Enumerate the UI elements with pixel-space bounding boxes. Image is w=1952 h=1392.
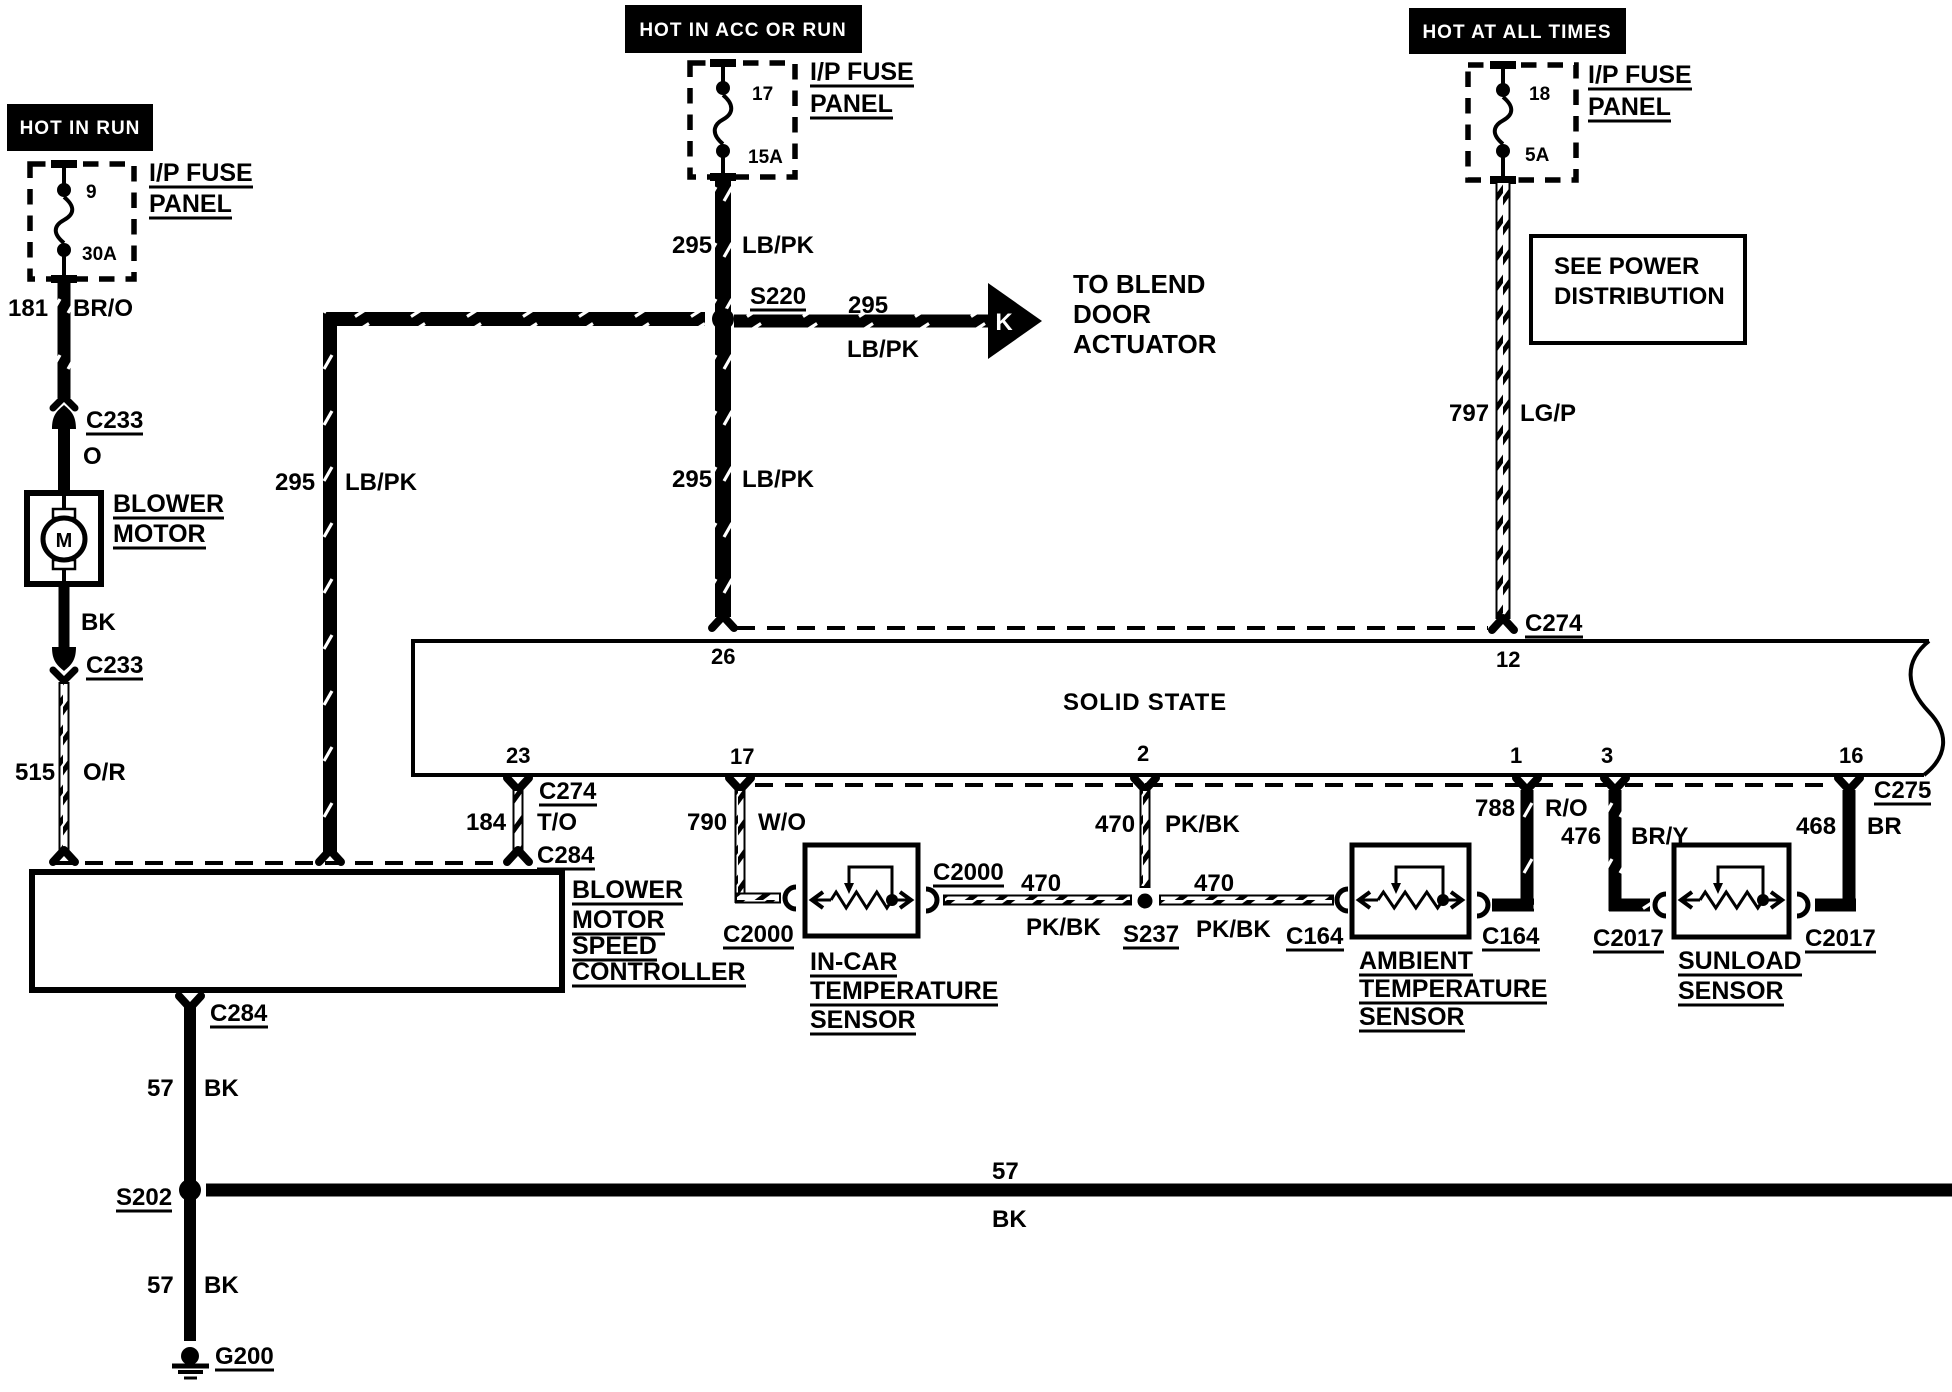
pin 3 — [1601, 743, 1613, 768]
svg-text:LG/P: LG/P — [1520, 400, 1576, 427]
svg-text:I/P FUSE: I/P FUSE — [810, 58, 914, 86]
svg-text:295: 295 — [672, 466, 712, 493]
svg-text:LB/PK: LB/PK — [742, 232, 815, 259]
fuse panel box (right, fuse 18) — [1468, 61, 1576, 184]
svg-text:26: 26 — [711, 644, 735, 669]
svg-text:HOT IN ACC OR RUN: HOT IN ACC OR RUN — [639, 20, 846, 41]
svg-text:184: 184 — [466, 809, 507, 836]
svg-text:9: 9 — [86, 182, 97, 203]
fuse panel box (middle, fuse 17) — [690, 59, 795, 181]
splice S202 — [116, 1179, 201, 1211]
wire O — [58, 426, 102, 496]
svg-text:HOT AT ALL TIMES: HOT AT ALL TIMES — [1422, 22, 1611, 43]
connector C164 (right label) — [1477, 894, 1540, 950]
svg-text:1: 1 — [1510, 743, 1522, 768]
svg-text:12: 12 — [1496, 647, 1520, 672]
svg-text:LB/PK: LB/PK — [742, 466, 815, 493]
svg-text:470: 470 — [1194, 870, 1234, 897]
svg-text:2: 2 — [1137, 741, 1149, 766]
svg-text:C233: C233 — [86, 407, 143, 434]
connector C2017 (right label) — [1797, 894, 1876, 952]
svg-text:PANEL: PANEL — [810, 90, 893, 118]
label HOT IN RUN — [7, 104, 153, 151]
svg-text:DOOR: DOOR — [1073, 299, 1151, 329]
svg-text:R/O: R/O — [1545, 795, 1588, 822]
svg-text:SEE POWER: SEE POWER — [1554, 253, 1699, 280]
splice S220 — [712, 283, 806, 330]
svg-text:57: 57 — [992, 1158, 1019, 1185]
wire 295 LB/PK (S220 down to solid state pin 26) — [672, 326, 815, 628]
svg-text:S220: S220 — [750, 283, 806, 310]
svg-text:TO BLEND: TO BLEND — [1073, 269, 1205, 299]
svg-text:PK/BK: PK/BK — [1165, 811, 1240, 838]
wire 470 PK/BK (pin 2 down to S237) — [1095, 778, 1240, 887]
svg-text:TEMPERATURE: TEMPERATURE — [810, 977, 998, 1005]
svg-text:SENSOR: SENSOR — [1678, 977, 1784, 1005]
svg-text:468: 468 — [1796, 813, 1836, 840]
svg-text:PK/BK: PK/BK — [1196, 916, 1271, 943]
svg-text:15A: 15A — [748, 147, 783, 168]
connector C164 (left label) — [1286, 889, 1348, 950]
svg-text:AMBIENT: AMBIENT — [1359, 947, 1473, 975]
svg-text:BK: BK — [992, 1206, 1027, 1233]
sunload sensor — [1674, 845, 1802, 1005]
svg-text:C2017: C2017 — [1805, 925, 1876, 952]
connector C233 (bottom) — [52, 647, 143, 681]
connector boundary dashed line (bottom, C2000/C164/C2017/C275) — [755, 783, 1835, 787]
svg-text:SOLID STATE: SOLID STATE — [1063, 689, 1227, 716]
wire 476 BR/Y (pin 3 to sunload sensor) — [1561, 778, 1688, 916]
I/P fuse panel label (middle) — [810, 58, 914, 118]
in-car temperature sensor — [805, 845, 998, 1034]
svg-text:S237: S237 — [1123, 921, 1179, 948]
label TO BLEND DOOR ACTUATOR — [1073, 269, 1217, 359]
svg-text:S202: S202 — [116, 1184, 172, 1211]
wire 295 LB/PK (S220 to blend door actuator) — [734, 283, 1042, 363]
svg-text:TEMPERATURE: TEMPERATURE — [1359, 975, 1547, 1003]
svg-text:788: 788 — [1475, 795, 1515, 822]
solid state module box — [413, 641, 1943, 775]
pin 17 — [730, 744, 754, 769]
svg-text:O: O — [83, 443, 102, 470]
ground G200 — [172, 1343, 274, 1378]
svg-text:16: 16 — [1839, 743, 1863, 768]
svg-text:BR/O: BR/O — [73, 295, 133, 322]
wire 468 BR (sunload sensor to pin 16) — [1796, 778, 1902, 912]
svg-text:181: 181 — [8, 295, 48, 322]
svg-text:SENSOR: SENSOR — [1359, 1003, 1465, 1031]
I/P fuse panel label (right) — [1588, 61, 1692, 121]
blower motor M — [27, 490, 224, 584]
svg-text:C2000: C2000 — [723, 921, 794, 948]
svg-text:295: 295 — [672, 232, 712, 259]
svg-text:C2017: C2017 — [1593, 925, 1664, 952]
wire BK (motor ground lead) — [59, 582, 117, 647]
pin 23 — [506, 743, 530, 768]
see power distribution note — [1531, 236, 1745, 343]
svg-text:C233: C233 — [86, 652, 143, 679]
svg-text:MOTOR: MOTOR — [572, 906, 665, 934]
svg-text:23: 23 — [506, 743, 530, 768]
svg-text:515: 515 — [15, 759, 55, 786]
svg-text:295: 295 — [275, 469, 315, 496]
wire 515 O/R — [15, 683, 126, 862]
svg-text:BLOWER: BLOWER — [113, 490, 224, 518]
wire 57 BK (S202 to ground) — [147, 1198, 239, 1341]
svg-text:C274: C274 — [1525, 610, 1583, 637]
svg-text:MOTOR: MOTOR — [113, 520, 206, 548]
svg-text:C284: C284 — [210, 1000, 268, 1027]
connector C2000 (right label) — [926, 859, 1004, 911]
svg-text:17: 17 — [752, 84, 773, 105]
svg-text:ACTUATOR: ACTUATOR — [1073, 329, 1217, 359]
wire 57 BK (controller to S202) — [147, 1006, 239, 1182]
svg-text:470: 470 — [1095, 811, 1135, 838]
connector C2000 (left label) — [723, 921, 794, 948]
svg-text:CONTROLLER: CONTROLLER — [572, 958, 746, 986]
svg-text:SENSOR: SENSOR — [810, 1006, 916, 1034]
pin 12 — [1496, 647, 1520, 672]
connector C284 dashed boundary (left) — [55, 861, 505, 865]
svg-text:C275: C275 — [1874, 777, 1931, 804]
connector C274 dashed boundary (top) — [737, 626, 1488, 630]
pin 26 — [711, 644, 735, 669]
svg-text:C164: C164 — [1286, 923, 1344, 950]
blower motor speed controller box — [32, 872, 746, 990]
pin 2 — [1137, 741, 1149, 766]
I/P fuse panel label (left) — [149, 159, 253, 218]
svg-text:SPEED: SPEED — [572, 932, 657, 960]
svg-text:PANEL: PANEL — [149, 190, 232, 218]
svg-text:T/O: T/O — [537, 809, 577, 836]
label HOT AT ALL TIMES — [1409, 8, 1626, 54]
connector C2017 (left label) — [1593, 925, 1664, 952]
connector C275 — [1874, 777, 1931, 804]
svg-text:5A: 5A — [1525, 145, 1550, 166]
fuse panel box (left, fuse 9) — [30, 160, 134, 283]
svg-text:790: 790 — [687, 809, 727, 836]
svg-text:476: 476 — [1561, 823, 1601, 850]
wire 470 PK/BK (S237 to C164) — [1160, 870, 1333, 943]
svg-text:O/R: O/R — [83, 759, 126, 786]
pin 16 — [1839, 743, 1863, 768]
wire 295 LB/PK branch (S220 left and down to controller) — [275, 312, 705, 862]
splice S237 — [1123, 892, 1179, 948]
svg-text:BK: BK — [204, 1075, 239, 1102]
svg-text:M: M — [56, 530, 73, 552]
wire 181 BR/O — [8, 281, 133, 398]
svg-text:BK: BK — [204, 1272, 239, 1299]
svg-text:797: 797 — [1449, 400, 1489, 427]
svg-text:W/O: W/O — [758, 809, 806, 836]
svg-text:30A: 30A — [82, 244, 117, 265]
wire 790 W/O (pin 17 to in-car sensor) — [687, 778, 806, 909]
svg-text:PANEL: PANEL — [1588, 93, 1671, 121]
svg-text:BK: BK — [81, 609, 116, 636]
wire 470 PK/BK (C2000 to S237) — [944, 870, 1131, 941]
label HOT IN ACC OR RUN — [625, 5, 862, 53]
svg-text:PK/BK: PK/BK — [1026, 914, 1101, 941]
connector C233 (top) — [52, 397, 143, 434]
connector C274 (right) — [1525, 610, 1583, 637]
svg-text:3: 3 — [1601, 743, 1613, 768]
svg-text:I/P FUSE: I/P FUSE — [149, 159, 253, 187]
svg-text:K: K — [995, 309, 1013, 336]
svg-text:DISTRIBUTION: DISTRIBUTION — [1554, 283, 1725, 310]
wire 57 BK (S202 to right edge) — [206, 1158, 1952, 1233]
svg-text:G200: G200 — [215, 1343, 274, 1370]
pin 1 — [1510, 743, 1522, 768]
svg-text:BLOWER: BLOWER — [572, 876, 683, 904]
wire 184 T/O with connectors C274/C284 — [466, 778, 597, 869]
connector C284 (below controller) — [179, 996, 268, 1027]
svg-text:SUNLOAD: SUNLOAD — [1678, 947, 1802, 975]
ambient temperature sensor — [1352, 845, 1547, 1031]
svg-text:295: 295 — [848, 292, 888, 319]
wire 797 LG/P — [1449, 182, 1576, 630]
svg-text:LB/PK: LB/PK — [345, 469, 418, 496]
svg-text:17: 17 — [730, 744, 754, 769]
svg-text:18: 18 — [1529, 84, 1550, 105]
svg-text:I/P FUSE: I/P FUSE — [1588, 61, 1692, 89]
svg-text:C2000: C2000 — [933, 859, 1004, 886]
svg-text:57: 57 — [147, 1075, 174, 1102]
wire 295 LB/PK (fuse to S220) — [672, 179, 815, 313]
svg-text:C284: C284 — [537, 842, 595, 869]
wire 788 R/O (ambient sensor to pin 1) — [1475, 778, 1588, 912]
svg-text:57: 57 — [147, 1272, 174, 1299]
svg-text:C274: C274 — [539, 778, 597, 805]
svg-text:LB/PK: LB/PK — [847, 336, 920, 363]
svg-text:C164: C164 — [1482, 923, 1540, 950]
svg-text:IN-CAR: IN-CAR — [810, 948, 898, 976]
svg-text:BR: BR — [1867, 813, 1902, 840]
svg-text:470: 470 — [1021, 870, 1061, 897]
svg-text:HOT IN RUN: HOT IN RUN — [20, 118, 141, 139]
